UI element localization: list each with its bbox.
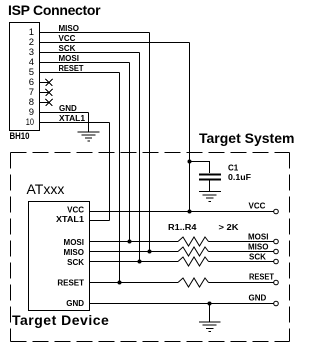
svg-text:SCK: SCK	[67, 258, 84, 267]
svg-text:GND: GND	[249, 294, 267, 303]
svg-text:ISP Connector: ISP Connector	[8, 2, 101, 18]
svg-text:Target Device: Target Device	[12, 312, 109, 328]
svg-text:MOSI: MOSI	[64, 238, 84, 247]
svg-text:VCC: VCC	[249, 202, 266, 211]
svg-text:VCC: VCC	[59, 34, 76, 43]
svg-text:RESET: RESET	[249, 273, 274, 282]
svg-text:> 2K: > 2K	[219, 223, 239, 232]
svg-text:GND: GND	[59, 104, 77, 113]
svg-text:RESET: RESET	[57, 279, 84, 288]
svg-text:C1: C1	[228, 164, 239, 173]
svg-text:SCK: SCK	[249, 253, 266, 262]
svg-text:XTAL1: XTAL1	[56, 215, 85, 224]
svg-text:VCC: VCC	[67, 206, 84, 215]
svg-text:BH10: BH10	[10, 131, 30, 141]
svg-text:0.1uF: 0.1uF	[228, 173, 251, 182]
svg-text:MOSI: MOSI	[59, 54, 79, 63]
svg-text:MISO: MISO	[59, 24, 79, 33]
svg-text:GND: GND	[66, 299, 84, 308]
svg-text:Target System: Target System	[199, 130, 294, 146]
svg-text:MISO: MISO	[248, 243, 268, 252]
svg-text:XTAL1: XTAL1	[59, 114, 86, 123]
svg-text:SCK: SCK	[59, 44, 76, 53]
svg-text:MISO: MISO	[64, 248, 84, 257]
svg-text:10: 10	[26, 117, 34, 128]
svg-text:ATxxx: ATxxx	[27, 181, 65, 197]
svg-text:MOSI: MOSI	[248, 233, 268, 242]
svg-text:RESET: RESET	[59, 64, 84, 73]
svg-text:R1..R4: R1..R4	[168, 223, 197, 232]
